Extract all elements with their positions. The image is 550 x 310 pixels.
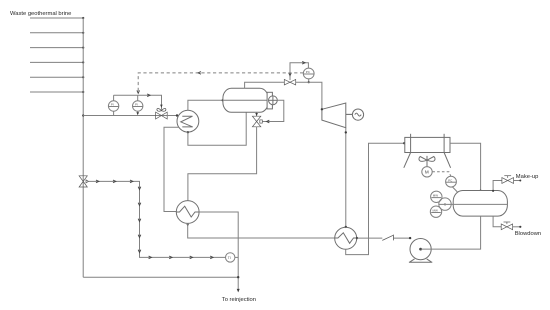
wire V3 to HX2 top (188, 127, 257, 201)
heat-exchanger HX3 (recuperator/condenser) (335, 227, 357, 249)
wire brine manifold line 1 (30, 17, 83, 19)
svg-text:MW: MW (433, 209, 438, 213)
wire brine manifold line 4 (30, 61, 83, 63)
node junction HX3 top (345, 226, 347, 228)
wire check valve to pump (393, 237, 411, 239)
wire brine manifold line 6 (30, 91, 83, 93)
valve V3 (252, 116, 260, 127)
node arrow to reinjection (237, 289, 240, 293)
wire HX1 top to flash drum (188, 100, 223, 110)
instrument analyzer A (431, 191, 442, 202)
wire HX2 bottom to HX3 left (188, 224, 335, 239)
component fan blades (419, 156, 435, 167)
wire drum bottom to V3 with arrow (255, 112, 258, 116)
instrument PI-1 (108, 101, 118, 111)
heat-exchanger HX1 (evaporator) (177, 110, 199, 132)
node junction accumulator top inlet (479, 190, 481, 192)
node junction brine tee (82, 114, 84, 116)
wire PC2 to drum (452, 187, 457, 192)
valve V1 actuator (157, 108, 166, 111)
node junction at HX1 bottom (187, 131, 189, 133)
node junction at HX1 inlet (176, 114, 178, 116)
wire drum vapor riser to V2 (245, 82, 285, 88)
svg-text:To reinjection: To reinjection (222, 297, 256, 303)
svg-text:PI: PI (111, 103, 114, 107)
wire brine header vertical (82, 18, 84, 278)
turbine T1 (322, 103, 346, 128)
wire pump discharge to accumulator bottom (421, 216, 481, 249)
node arrow HX2 bottom (186, 224, 189, 227)
valve V5 blowdown (501, 222, 512, 230)
motor M (422, 167, 432, 177)
svg-text:Blowdown: Blowdown (515, 231, 541, 237)
valve V6 brine bypass (79, 176, 87, 187)
wire PI-2 stub down with arrow (136, 111, 139, 115)
wire HX1 bottom loop to drum bottom (188, 112, 246, 145)
node chevron on V2 stem (289, 73, 292, 76)
wire blowdown line (493, 216, 501, 227)
wire PI-1 stub up (113, 95, 115, 101)
wire appendage loop to valve V3 (263, 100, 284, 121)
vessel accumulator drum (453, 191, 507, 217)
wire PI-2 stub up (137, 95, 139, 101)
valve V6 actuator tip (86, 180, 89, 183)
wire TI stub (235, 256, 238, 258)
node junction PC1 tap (308, 81, 310, 83)
wire HX1 brine outlet to HX2 (164, 127, 179, 211)
generator G1 (346, 109, 364, 120)
node junction bypass join (237, 276, 239, 278)
wire air cooler outlet to accumulator (450, 143, 481, 190)
wire brine main line to HX1 (83, 115, 177, 117)
wire make-up stub (514, 180, 521, 182)
wire dashed M to PC2 (432, 172, 451, 177)
wire brine manifold line 5 (30, 76, 83, 78)
wire HX2 right to reinjection (199, 212, 238, 291)
air-cooler AC1 (404, 134, 451, 168)
wire blowdown stub (513, 226, 521, 228)
component drum end appendage (267, 92, 277, 109)
instrument PC1 (303, 68, 314, 79)
node junction air cooler inlet (403, 142, 405, 144)
wire drum centerline (223, 99, 277, 101)
node junction HX3 right (356, 237, 358, 239)
node chevron dashed end arrow (137, 90, 140, 93)
instrument PC2 (446, 176, 457, 187)
node arrow on valve stem (160, 105, 163, 108)
instrument controller C (439, 198, 451, 210)
wire make-up line (493, 181, 502, 191)
node junction turbine inlet (321, 108, 323, 110)
node junction below turbine (345, 131, 347, 133)
pump P1 (409, 239, 432, 263)
valve V1 body (156, 112, 168, 119)
svg-text:M: M (425, 170, 429, 175)
svg-text:PI: PI (135, 103, 138, 107)
valve V3 actuator (260, 120, 263, 123)
wire HX3 bottom to air cooler (346, 143, 405, 254)
wire HX3 right to check valve (357, 237, 383, 239)
instrument analyzer B (430, 206, 441, 217)
wire V2 to turbine (296, 82, 322, 109)
valve V4 make-up (502, 176, 514, 184)
wire brine bypass bottom horizontal (83, 276, 238, 278)
wire chevron signal line V6 to TI (89, 181, 226, 257)
wire turbine exhaust to HX3 (345, 128, 347, 228)
node pump center dot (419, 248, 422, 251)
vessel flash drum (223, 88, 268, 112)
node chevron on dashed line (198, 72, 201, 75)
svg-text:Waste geothermal brine: Waste geothermal brine (10, 11, 71, 17)
node chevron on signal line (147, 94, 150, 97)
node chevrons on V6-TI line (96, 180, 213, 259)
heat-exchanger HX2 (preheater) (176, 201, 199, 224)
svg-text:Make-up: Make-up (516, 174, 539, 180)
wire brine manifold line 2 (30, 32, 83, 34)
instrument PI-2 (133, 101, 143, 111)
node junction at drum left (222, 99, 224, 101)
svg-text:MW: MW (433, 194, 438, 198)
wire PI-1 stub down (113, 111, 115, 115)
valve V2 (284, 79, 295, 85)
wire signal line instruments to valve V1 (114, 95, 162, 110)
node junction make-up top (492, 190, 494, 192)
check valve CV1 (382, 235, 393, 241)
node chevron on PC1 link (302, 62, 305, 65)
wire PC1 stub to line (308, 79, 310, 82)
wire V1 to HX1 (167, 115, 177, 117)
node manifold junction dots (82, 17, 84, 93)
node make-up end dot (519, 180, 521, 182)
node junction pump suction (409, 237, 411, 239)
node blowdown end dot (519, 226, 521, 228)
wire brine manifold line 3 (30, 47, 83, 49)
svg-text:TI: TI (228, 256, 231, 260)
instrument TI (226, 253, 235, 262)
wire dashed signal PC1 to PI instruments (138, 73, 303, 93)
wire V2 stem to PC1 (290, 63, 308, 80)
wire level line through drum (439, 203, 507, 205)
node chevron loop arrow (267, 120, 270, 123)
